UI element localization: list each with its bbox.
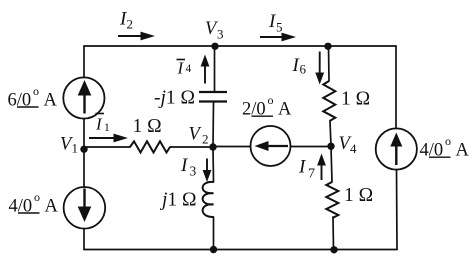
current source S3 arrow left: [255, 141, 289, 151]
capacitor C1 -j1ohm bottom plate: [199, 100, 227, 102]
svg-text:5: 5: [276, 20, 283, 35]
current source S2 arrow down: [78, 189, 92, 223]
wire right upper (top wire to source 4A right): [395, 46, 397, 129]
svg-text:1 Ω: 1 Ω: [341, 89, 370, 110]
node top-right junction dot: [324, 43, 331, 50]
current arrow I4 up: [201, 55, 210, 84]
label I1 with bar: [95, 114, 110, 135]
svg-text:3: 3: [217, 27, 224, 42]
label 6/0 A source value: [8, 84, 58, 111]
svg-text:1 Ω: 1 Ω: [133, 116, 162, 137]
wire top node to resistor R2: [328, 46, 331, 81]
svg-text:4: 4: [186, 63, 192, 75]
svg-text:2: 2: [202, 132, 209, 147]
svg-text:A: A: [44, 91, 58, 111]
svg-text:o: o: [268, 93, 274, 107]
svg-text:-j1 Ω: -j1 Ω: [154, 88, 195, 109]
wire node V2 to inductor L1: [212, 147, 215, 182]
svg-text:V: V: [189, 125, 203, 145]
svg-text:1: 1: [72, 141, 79, 156]
current source S1 6A circle: [63, 77, 104, 118]
current arrow I5: [260, 33, 296, 42]
wire left lower (source I=4 to bottom wire): [83, 229, 85, 250]
current source S4 arrow up: [390, 133, 402, 166]
svg-text:A: A: [456, 141, 470, 161]
wire node V3 to capacitor C1: [214, 46, 216, 91]
wire middle V1 to resistor R1: [84, 146, 130, 148]
node V2 junction dot: [209, 143, 216, 150]
wire left upper (top wire to source I=6): [83, 46, 85, 78]
svg-text:A: A: [278, 100, 292, 120]
current source S3 2A circle: [251, 126, 291, 166]
svg-text:j1 Ω: j1 Ω: [159, 190, 197, 211]
svg-text:A: A: [45, 197, 59, 217]
wire left middle (source I=6 to source I=4 through node V1): [83, 119, 85, 188]
wire resistor R3 to bottom wire: [332, 217, 335, 250]
label I4 with bar: [177, 59, 192, 78]
wire capacitor C1 to node V2: [212, 102, 215, 147]
svg-text:2: 2: [127, 17, 134, 32]
current arrow I2: [118, 32, 155, 41]
svg-text:I: I: [177, 59, 185, 78]
resistor R2 1ohm upper right: [323, 81, 335, 121]
svg-text:1 Ω: 1 Ω: [344, 185, 373, 206]
node V4 junction dot: [327, 143, 334, 150]
svg-text:I: I: [95, 115, 103, 134]
label 4/0 A source value right: [420, 134, 470, 161]
wire node V2 to source 2A: [213, 146, 251, 148]
svg-text:7: 7: [308, 167, 315, 182]
current source S4 4A circle: [376, 128, 417, 169]
wire resistor R1 to node V2: [170, 146, 213, 148]
label 4/0 A source value left: [9, 190, 59, 217]
svg-text:o: o: [34, 190, 40, 204]
wire top: [84, 45, 396, 47]
current source S1 arrow up: [78, 80, 92, 114]
inductor L1 j1ohm: [203, 182, 214, 217]
svg-text:o: o: [445, 134, 451, 148]
capacitor C1 -j1ohm top plate: [199, 91, 227, 93]
svg-text:I: I: [180, 155, 189, 176]
node V1 junction dot: [80, 146, 87, 153]
svg-text:6: 6: [300, 62, 307, 77]
current arrow I7 up: [317, 154, 326, 181]
label 2/0 A source value: [242, 93, 292, 120]
svg-text:1: 1: [104, 122, 110, 134]
wire node V4 to resistor R3: [331, 147, 332, 183]
resistor R3 1ohm lower right: [326, 182, 338, 218]
current arrow I3 down: [203, 159, 212, 183]
node bottom-left junction dot: [210, 246, 217, 253]
svg-text:4: 4: [350, 141, 357, 156]
node V3 junction dot: [211, 43, 218, 50]
node bottom-right junction dot: [330, 246, 337, 253]
wire source 2A to node V4: [291, 146, 332, 148]
wire bottom: [84, 249, 397, 251]
svg-text:3: 3: [190, 164, 197, 179]
current source S2 4A circle: [64, 187, 106, 229]
svg-text:o: o: [33, 84, 39, 98]
resistor R1 1ohm horizontal: [130, 141, 170, 152]
current arrow I1: [89, 134, 128, 143]
wire resistor R2 to node V4: [330, 121, 331, 147]
wire right lower (source 4A right to bottom wire): [396, 170, 399, 250]
current arrow I6 down: [315, 52, 324, 85]
svg-text:I: I: [298, 157, 307, 178]
wire inductor L1 to bottom wire: [213, 217, 215, 250]
